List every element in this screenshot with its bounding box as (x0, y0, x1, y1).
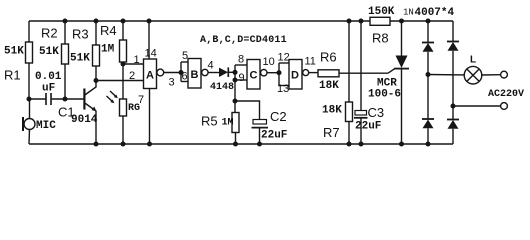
wire AC neutral (453, 105, 501, 107)
diode D2 bridge upper-left (422, 21, 434, 75)
node R7 ground (347, 142, 352, 147)
svg-text:8: 8 (238, 54, 244, 66)
resistor R8 (370, 17, 390, 25)
svg-text:100-6: 100-6 (368, 89, 401, 101)
wire top supply bus (29, 20, 370, 22)
resistor R4 (120, 21, 127, 64)
capacitor C3 (354, 21, 368, 144)
svg-text:R5: R5 (201, 114, 218, 129)
svg-text:L: L (470, 55, 476, 66)
svg-text:A: A (146, 70, 154, 82)
op-amp U1 gate C (247, 60, 267, 90)
svg-text:C3: C3 (368, 105, 385, 120)
node AC terminal 1 (501, 71, 508, 78)
svg-text:R7: R7 (323, 125, 340, 140)
wire C output (267, 72, 279, 74)
node diode-C junction (233, 70, 238, 75)
svg-text:9: 9 (239, 72, 245, 84)
node RG ground (121, 142, 126, 147)
wire B output (208, 72, 219, 74)
svg-text:R8: R8 (372, 31, 389, 46)
svg-text:1M: 1M (101, 44, 115, 56)
node D input junction (277, 70, 282, 75)
node R4 top (121, 19, 126, 24)
svg-text:uF: uF (42, 83, 55, 95)
svg-text:4: 4 (208, 60, 214, 72)
node AC left tap (426, 72, 431, 77)
resistor R3 (93, 21, 100, 81)
svg-text:9014: 9014 (71, 114, 98, 126)
svg-text:10: 10 (263, 56, 275, 68)
svg-text:22uF: 22uF (355, 121, 381, 133)
op-amp U1 gate D (289, 60, 309, 90)
svg-text:1: 1 (134, 54, 140, 66)
node SCR top (399, 19, 404, 24)
capacitor C1 (29, 93, 84, 105)
svg-text:150K: 150K (368, 6, 395, 18)
node collector junction (94, 78, 99, 83)
node C1-R2 junction (63, 97, 68, 102)
svg-text:C2: C2 (270, 109, 287, 124)
transistor Q1 9014 (84, 81, 96, 145)
node bridge ground (426, 142, 431, 147)
node emitter ground (94, 142, 99, 147)
svg-text:51K: 51K (39, 46, 59, 58)
svg-text:AC220V: AC220V (488, 89, 524, 100)
svg-text:51K: 51K (4, 46, 24, 58)
microphone MIC (23, 99, 35, 144)
svg-text:MIC: MIC (36, 120, 56, 132)
svg-text:R2: R2 (41, 26, 58, 41)
node SCR ground (399, 142, 404, 147)
resistor R6 (318, 69, 395, 77)
node bridge top (426, 19, 431, 24)
node R4-RG-pin1 junction (121, 62, 126, 67)
node pin14 top (147, 19, 152, 24)
wire pin1 input (123, 63, 144, 65)
svg-text:18K: 18K (322, 105, 342, 117)
node AC terminal 2 (501, 103, 508, 110)
diode D4 bridge upper-right (447, 21, 459, 106)
node C3 ground (359, 142, 364, 147)
diode D3 bridge lower-left (422, 75, 434, 145)
node C2 ground (257, 142, 262, 147)
svg-text:R6: R6 (320, 50, 337, 65)
svg-text:11: 11 (305, 56, 316, 68)
node AC right tap (451, 104, 456, 109)
photoresistor RG (107, 64, 127, 144)
svg-text:4148: 4148 (210, 82, 234, 93)
svg-text:B: B (191, 69, 199, 81)
wire D output (309, 72, 318, 74)
wire top bus right segment (390, 20, 453, 22)
node R7 top (347, 19, 352, 24)
wire pin14 supply (148, 21, 150, 59)
svg-text:22uF: 22uF (261, 130, 287, 142)
wire C input tie (235, 65, 247, 113)
svg-text:R1: R1 (4, 68, 21, 83)
resistor R1 (26, 21, 33, 99)
op-amp U1 gate A (144, 59, 164, 89)
svg-text:18K: 18K (319, 80, 339, 92)
node R2 top (63, 19, 68, 24)
wire pin7 ground (149, 89, 151, 145)
diode D5 bridge lower-right (447, 106, 459, 144)
wire lamp to terminal (482, 74, 501, 76)
lamp L (464, 66, 482, 84)
resistor R5 (232, 113, 239, 145)
node C1-R1 junction (27, 97, 32, 102)
svg-text:1N: 1N (403, 8, 414, 18)
svg-text:14: 14 (145, 48, 157, 60)
svg-text:12: 12 (278, 52, 290, 64)
op-amp U1 gate B (181, 59, 208, 89)
diode D1 4148 (219, 67, 235, 77)
svg-text:C: C (250, 70, 258, 82)
svg-text:D: D (291, 70, 299, 82)
svg-text:2: 2 (129, 70, 135, 82)
svg-text:3: 3 (169, 77, 175, 89)
svg-text:A,B,C,D=CD4011: A,B,C,D=CD4011 (200, 35, 287, 46)
svg-text:51K: 51K (70, 53, 90, 65)
node R3 top (94, 19, 99, 24)
svg-text:R3: R3 (72, 27, 89, 42)
resistor R7 (346, 21, 353, 144)
svg-text:5: 5 (182, 50, 188, 62)
wire AC live to lamp (428, 74, 464, 76)
wire A output (164, 72, 181, 74)
wire D input tie (279, 63, 289, 86)
svg-text:1M: 1M (222, 118, 234, 129)
resistor R2 (62, 21, 69, 99)
capacitor C2 (235, 101, 268, 144)
wire pin2 input (96, 80, 144, 82)
svg-text:6: 6 (182, 71, 188, 83)
svg-text:7: 7 (138, 94, 144, 106)
svg-text:13: 13 (277, 83, 289, 95)
node pin9 junction (233, 78, 238, 83)
svg-text:4007*4: 4007*4 (415, 7, 455, 19)
svg-text:R4: R4 (100, 23, 117, 38)
node R5-C2 junction (233, 99, 238, 104)
svg-text:0.01: 0.01 (35, 71, 62, 83)
wire bottom ground bus (29, 143, 453, 145)
node B input junction (179, 70, 184, 75)
thyristor MCR100-6 (394, 21, 409, 144)
node pin7 ground (147, 142, 152, 147)
node R5 ground (233, 142, 238, 147)
node C3 top (359, 19, 364, 24)
